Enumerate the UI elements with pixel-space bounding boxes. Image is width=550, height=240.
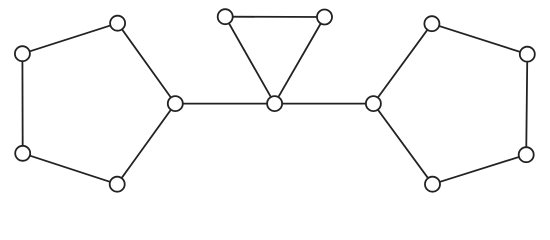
node I [366,96,381,111]
node M [425,177,440,192]
wire I-J [373,24,432,104]
node C [15,146,30,161]
node E [168,96,183,111]
node D [110,177,125,192]
wire C-D [23,153,118,184]
node H [267,96,282,111]
wire L-M [433,155,527,185]
wire H-I [275,103,374,105]
node B [15,46,30,61]
node F [218,9,233,24]
wire F-G [225,16,324,18]
node K [520,47,535,62]
node J [424,16,439,31]
node G [317,10,332,25]
wire M-I [373,104,432,185]
wire G-H [275,17,325,104]
wire A-B [22,23,117,54]
wire F-H [225,17,274,104]
wire E-A [118,23,176,103]
node A [110,16,125,31]
wire B-C [21,54,23,154]
wire D-E [117,104,175,185]
wire J-K [432,24,527,55]
node L [519,147,534,162]
wire E-H [175,103,274,105]
wire K-L [526,54,527,155]
